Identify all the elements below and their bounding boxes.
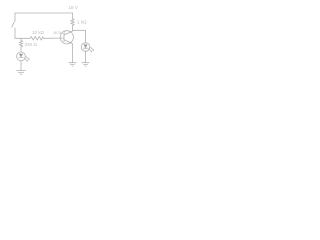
svg-text:330 Ω: 330 Ω [25, 42, 38, 47]
resistor R1 10k [30, 37, 44, 40]
switch S1 [12, 13, 15, 38]
wire D1 to ground [20, 61, 22, 71]
svg-text:BC547: BC547 [54, 30, 67, 35]
resistor R3 1k [71, 19, 74, 26]
LED D1 [17, 52, 30, 61]
wire branch down [20, 38, 22, 40]
wire supply drop [72, 13, 74, 19]
wire D2 to ground [85, 51, 87, 62]
resistor R2 330 [19, 41, 22, 48]
svg-text:18 V: 18 V [69, 5, 79, 10]
svg-text:10 kΩ: 10 kΩ [32, 30, 45, 35]
wire base rail [15, 37, 30, 39]
wire R3 to node [72, 26, 74, 31]
ground GND2 [69, 63, 76, 66]
wire emitter to ground [72, 43, 74, 62]
ground GND1 [17, 71, 26, 75]
svg-text:1 kΩ: 1 kΩ [77, 20, 87, 25]
transistor Q1 [60, 31, 73, 44]
LED D2 [81, 43, 94, 52]
ground GND3 [82, 63, 89, 66]
wire top rail [15, 12, 73, 14]
wire node to LED branch [73, 30, 86, 42]
wire collector up [71, 30, 74, 31]
wire R2 to D1 [20, 47, 22, 52]
wire to base [44, 37, 64, 39]
